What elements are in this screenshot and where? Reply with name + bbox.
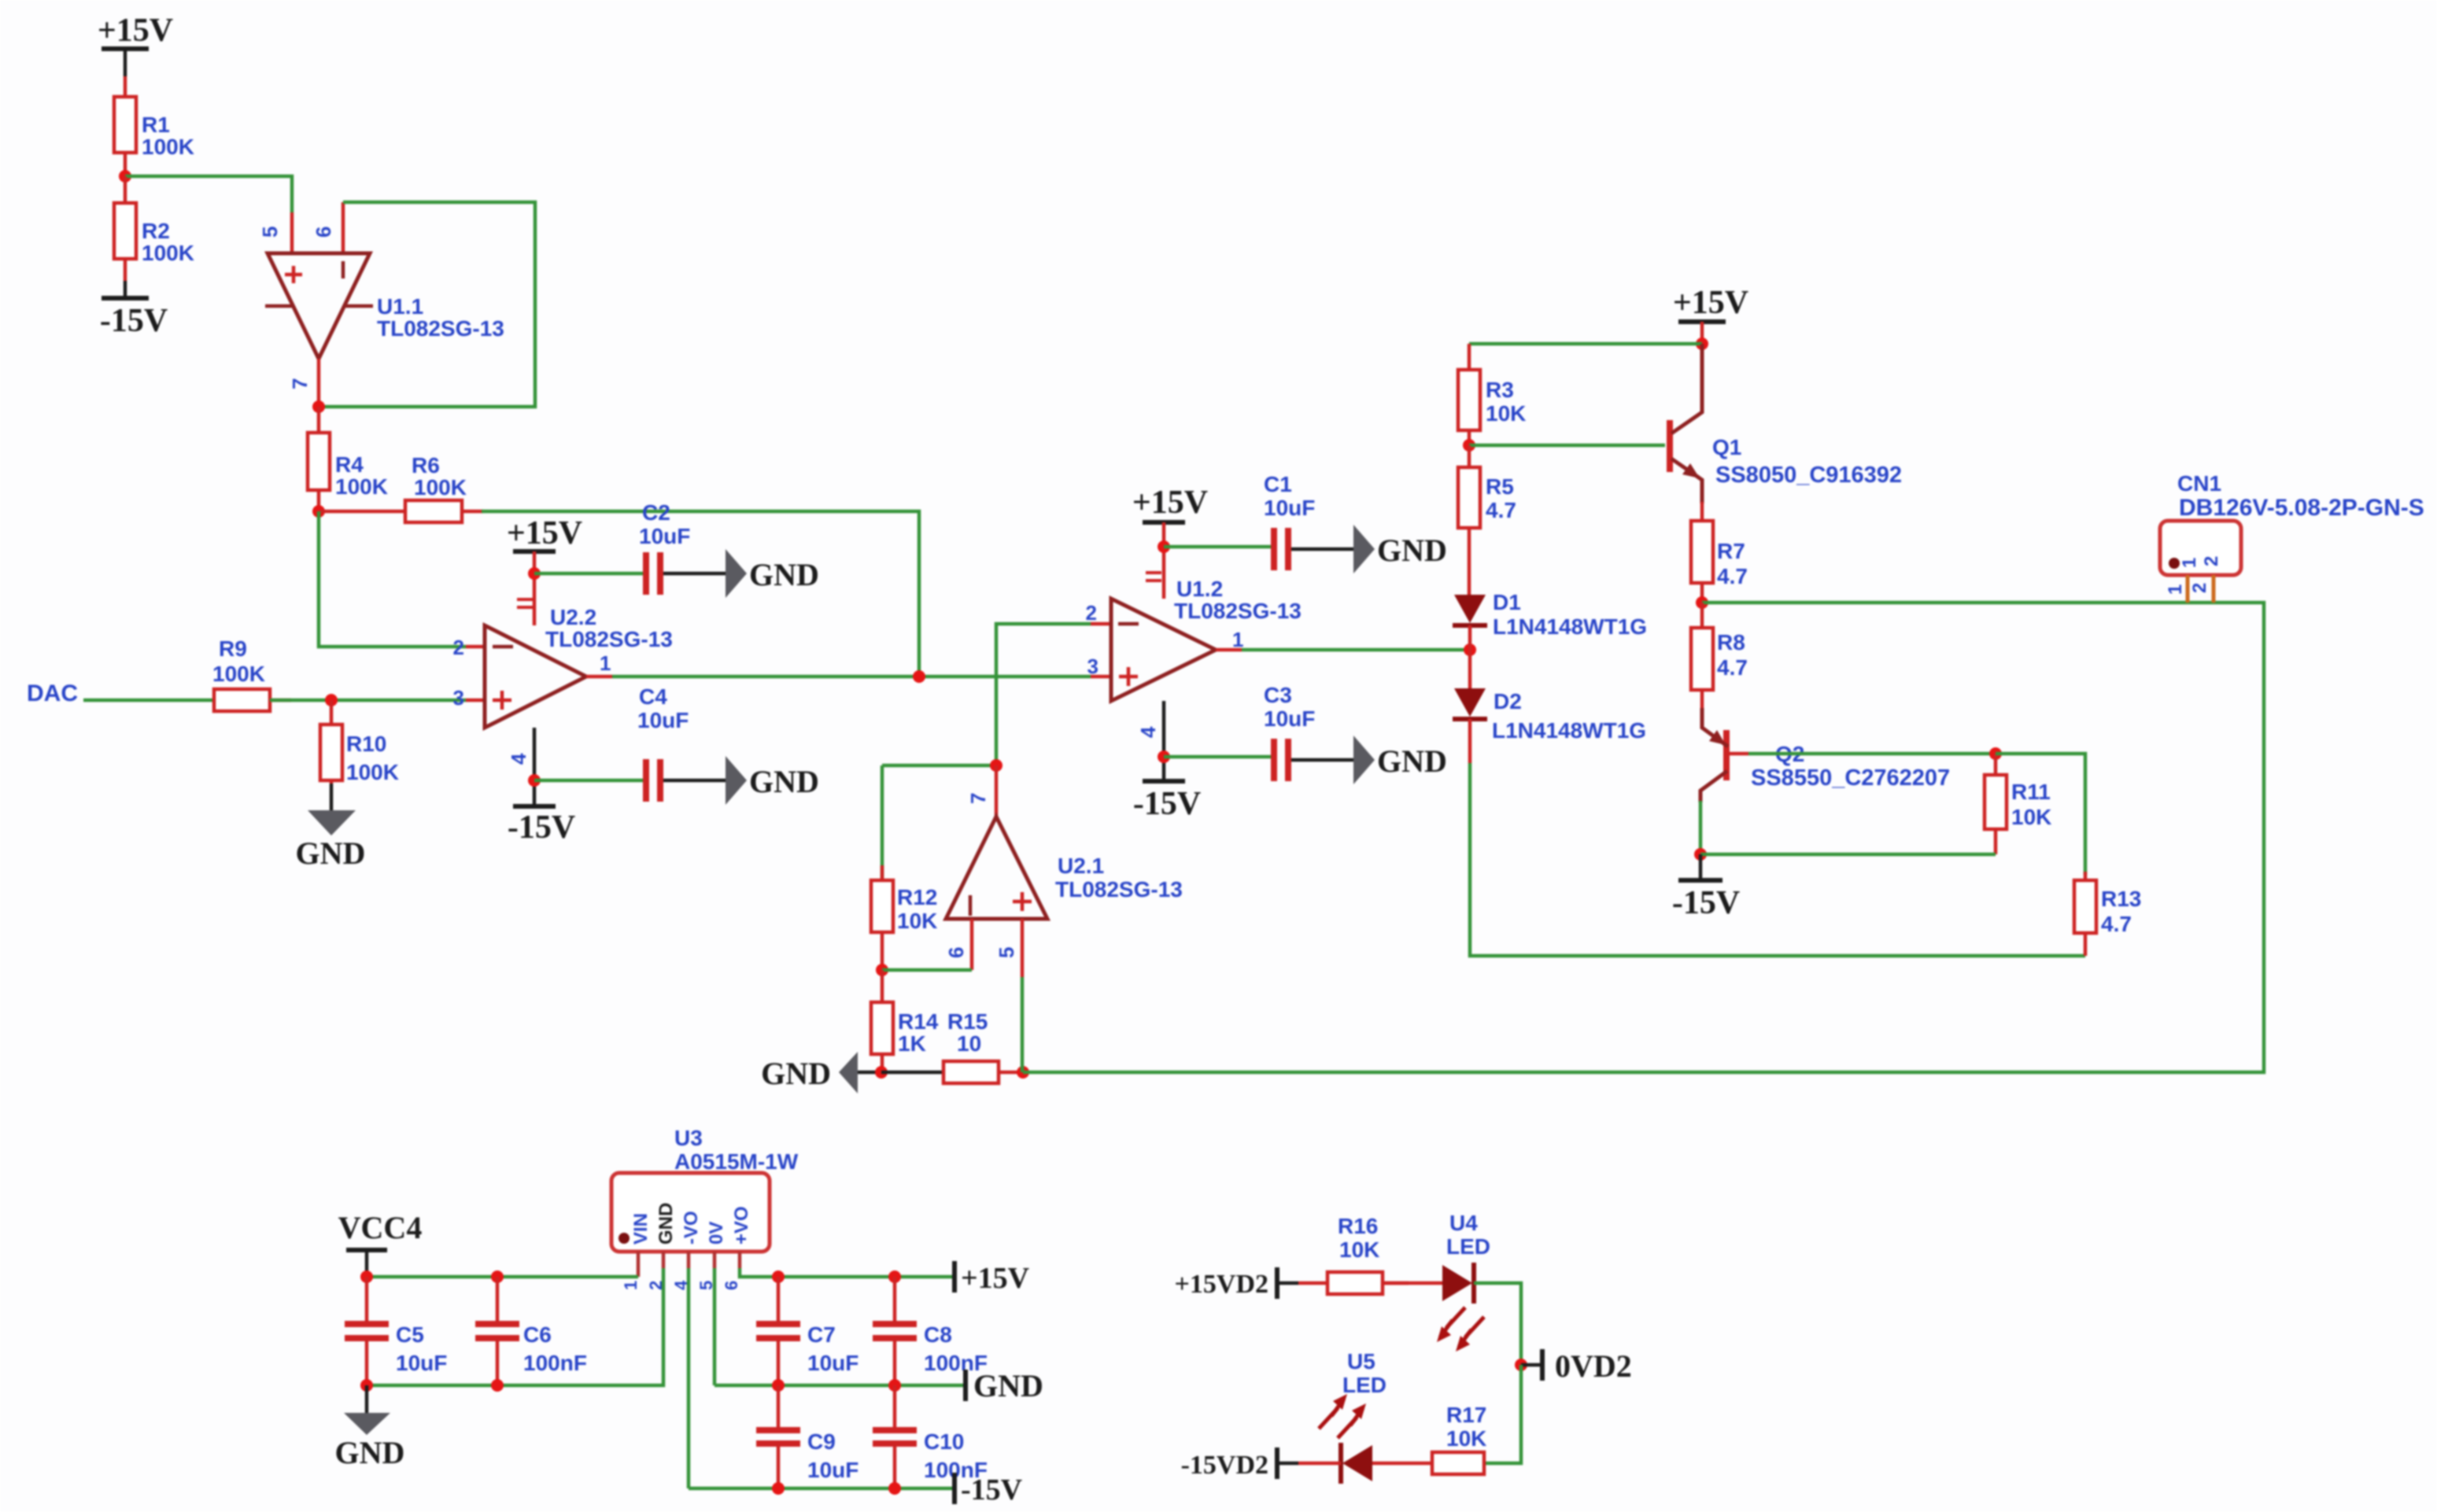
wire (Q2 base to R11)	[1748, 752, 1996, 756]
node (U1.2 V+ / C1)	[1158, 540, 1170, 553]
node (VCC4/C5)	[360, 1270, 373, 1283]
node (U1.1 output)	[312, 400, 325, 413]
wire (U2.1 pin5 down to R15 node)	[1021, 977, 1025, 1072]
svg-text:100K: 100K	[414, 475, 467, 500]
wire (R6 to U2.2 output node, feedback)	[482, 511, 919, 673]
svg-text:4.7: 4.7	[2101, 912, 2132, 936]
connector CN1 DB126V-5.08-2P-GN-S	[2160, 471, 2424, 603]
svg-text:GND: GND	[655, 1203, 677, 1245]
svg-text:2: 2	[2189, 583, 2210, 593]
power -15V (below Q2)	[1672, 854, 1740, 921]
resistor R14 1K	[871, 970, 939, 1072]
wire (U2.2 output to U1.2 pin3)	[612, 675, 1091, 679]
wire (U3 pin2 GND down to bottom-left rail)	[367, 1268, 663, 1385]
svg-text:TL082SG-13: TL082SG-13	[1174, 599, 1302, 623]
svg-text:1: 1	[2165, 585, 2186, 595]
wire (collector node to R11 bottom)	[1700, 853, 1996, 857]
node (C8 bottom)	[888, 1379, 901, 1392]
capacitor C1 10uF	[1264, 472, 1353, 570]
svg-text:0VD2: 0VD2	[1555, 1348, 1632, 1384]
wire (junction to U1.1 pin5)	[125, 176, 292, 212]
wire (VCC4 rail to U3 pin1)	[367, 1275, 638, 1279]
capacitor C10 100nF	[873, 1385, 988, 1488]
node (C7 top)	[772, 1270, 785, 1283]
svg-text:4.7: 4.7	[1486, 498, 1516, 522]
svg-text:R4: R4	[335, 452, 364, 477]
ground (C2)	[726, 549, 819, 598]
op-amp U2.1 TL082SG-13	[944, 765, 1183, 977]
ground (C1)	[1353, 525, 1447, 573]
svg-text:+15V: +15V	[1673, 285, 1748, 321]
svg-text:U1.1: U1.1	[377, 294, 423, 319]
svg-text:+15V: +15V	[507, 515, 582, 551]
svg-text:GND: GND	[749, 557, 819, 592]
svg-text:4.7: 4.7	[1717, 655, 1748, 680]
svg-text:C5: C5	[396, 1322, 424, 1347]
svg-text:R10: R10	[346, 732, 386, 756]
svg-text:-15V: -15V	[508, 809, 575, 846]
wire (+15VD2 to R16)	[1298, 1282, 1327, 1285]
svg-text:DB126V-5.08-2P-GN-S: DB126V-5.08-2P-GN-S	[2179, 495, 2424, 521]
svg-text:C3: C3	[1264, 683, 1292, 707]
wire (U3 pin4 -VO down to -15V rail)	[687, 1268, 691, 1488]
node (output/feedback junction)	[913, 670, 925, 683]
svg-text:4.7: 4.7	[1717, 564, 1748, 588]
svg-text:U3: U3	[674, 1126, 703, 1150]
svg-text:-15V: -15V	[961, 1473, 1023, 1506]
resistor R9 100K	[212, 636, 291, 711]
svg-text:5: 5	[995, 947, 1018, 958]
wire (R7 node to CN1 and down to R15 net)	[1023, 603, 2264, 1072]
svg-text:+15V: +15V	[98, 13, 173, 49]
resistor R15 10	[881, 1009, 1023, 1083]
capacitor C7 10uF	[756, 1277, 858, 1385]
svg-text:R11: R11	[2011, 780, 2051, 804]
svg-text:C10: C10	[924, 1429, 964, 1454]
wire (to C2)	[534, 572, 644, 576]
power -15V (below U1.2)	[1133, 781, 1201, 822]
node (C7 bottom)	[772, 1379, 785, 1392]
svg-text:GND: GND	[973, 1368, 1043, 1403]
node (U2.2 V- / C4)	[528, 774, 541, 787]
svg-text:2: 2	[453, 636, 464, 659]
svg-text:100K: 100K	[142, 241, 194, 265]
power -15V (below U2.2)	[508, 806, 575, 846]
svg-text:C7: C7	[807, 1322, 836, 1347]
power +15V (above U2.2)	[507, 515, 582, 573]
resistor R4 100K	[308, 407, 388, 511]
op-amp U1.1 TL082SG-13	[258, 202, 504, 407]
wire (U3 pin5 0V down to GND rail)	[713, 1268, 717, 1385]
ground (C3)	[1353, 736, 1447, 784]
resistor R10 100K	[320, 700, 399, 810]
svg-text:1: 1	[1232, 628, 1243, 651]
capacitor C8 100nF	[873, 1277, 988, 1385]
wire (GND rail)	[714, 1384, 966, 1388]
node (C6 top)	[491, 1270, 504, 1283]
svg-text:R5: R5	[1486, 474, 1514, 499]
capacitor C6 100nF	[475, 1277, 587, 1385]
terminal -15V	[954, 1473, 1023, 1506]
capacitor C3 10uF	[1264, 683, 1353, 781]
svg-text:GND: GND	[335, 1435, 405, 1470]
op-amp U2.2 TL082SG-13	[453, 575, 673, 805]
node (R12/R14 junction)	[876, 964, 888, 976]
node (D1/D2 junction)	[1464, 644, 1476, 656]
svg-text:GND: GND	[749, 764, 819, 799]
svg-text:D1: D1	[1493, 590, 1521, 614]
svg-text:3: 3	[1087, 655, 1098, 678]
svg-text:LED: LED	[1342, 1373, 1387, 1397]
svg-text:+15V: +15V	[961, 1262, 1030, 1295]
terminal 0VD2	[1521, 1348, 1632, 1384]
svg-text:U2.1: U2.1	[1058, 854, 1104, 878]
resistor R12 10K	[871, 765, 937, 970]
svg-text:100K: 100K	[346, 760, 399, 784]
svg-text:A0515M-1W: A0515M-1W	[674, 1149, 799, 1174]
led U5 LED	[1319, 1349, 1387, 1484]
wire (to C4)	[534, 779, 644, 783]
svg-text:C8: C8	[924, 1322, 952, 1347]
wire (junction to U2.1 pin6)	[882, 968, 972, 972]
svg-text:10K: 10K	[1486, 401, 1526, 426]
svg-text:U5: U5	[1347, 1349, 1375, 1374]
svg-text:R3: R3	[1486, 378, 1514, 402]
wire (D2 down to R13 bottom rail)	[1470, 763, 2085, 956]
diode D1 L1N4148WT1G	[1453, 590, 1647, 650]
resistor R7 4.7	[1691, 502, 1748, 603]
node (C5 bottom)	[360, 1379, 373, 1392]
wire (R11 node to R13)	[1996, 754, 2085, 875]
wire (R16 to U4)	[1383, 1282, 1442, 1285]
svg-text:100nF: 100nF	[523, 1351, 587, 1375]
op-amp U1.2 TL082SG-13	[1086, 548, 1302, 780]
wire (U2.1 output up to U1.2 pin2)	[996, 624, 1091, 765]
node (Q2 base / R11 junction)	[1989, 747, 2002, 760]
ground (below R10)	[296, 810, 366, 871]
wire (-15V rail)	[689, 1487, 954, 1491]
svg-text:-15V: -15V	[1672, 885, 1740, 921]
node (R1/R2 junction)	[119, 170, 131, 183]
resistor R8 4.7	[1691, 603, 1748, 708]
node (+15V rail junction)	[1696, 337, 1708, 350]
wire (U3 pin6 +VO to +15V rail)	[740, 1268, 954, 1277]
svg-text:2: 2	[1086, 601, 1097, 625]
svg-text:5: 5	[258, 227, 282, 238]
svg-text:TL082SG-13: TL082SG-13	[377, 316, 504, 341]
resistor R5 4.7	[1458, 445, 1516, 595]
svg-text:6: 6	[312, 227, 335, 238]
terminal -15VD2	[1181, 1447, 1277, 1480]
svg-text:10: 10	[957, 1031, 981, 1056]
svg-text:7: 7	[288, 378, 312, 389]
svg-text:+15V: +15V	[1132, 485, 1208, 521]
svg-text:TL082SG-13: TL082SG-13	[1055, 877, 1183, 902]
svg-text:+VO: +VO	[731, 1206, 752, 1245]
svg-text:D2: D2	[1494, 689, 1522, 714]
svg-text:C4: C4	[639, 684, 667, 709]
svg-text:10K: 10K	[2011, 805, 2051, 829]
svg-text:TL082SG-13: TL082SG-13	[545, 627, 673, 651]
resistor R1 100K	[114, 76, 194, 176]
node (R7/R8/CN1 junction)	[1696, 596, 1708, 609]
node (GND/R14/R15 junction)	[875, 1066, 888, 1079]
node (C8 top)	[888, 1270, 901, 1283]
wire (to C1)	[1164, 545, 1272, 549]
node (Q2 collector junction)	[1694, 848, 1707, 861]
svg-text:C2: C2	[642, 500, 670, 525]
power +15V (above Q1)	[1673, 285, 1748, 344]
svg-text:-15VD2: -15VD2	[1181, 1451, 1268, 1480]
power +15V (top left)	[98, 13, 173, 76]
resistor R13 4.7	[2074, 872, 2141, 956]
svg-text:R13: R13	[2101, 887, 2141, 911]
wire (U5 to -15VD2)	[1298, 1462, 1341, 1466]
diode D2 L1N4148WT1G	[1453, 688, 1646, 763]
svg-text:100K: 100K	[335, 474, 388, 499]
ground (below C5)	[335, 1385, 405, 1470]
transistor Q1 SS8050	[1670, 344, 1902, 503]
svg-text:R17: R17	[1446, 1403, 1486, 1427]
svg-text:R6: R6	[412, 453, 440, 478]
svg-text:100K: 100K	[142, 135, 194, 159]
svg-text:R2: R2	[142, 219, 170, 243]
svg-text:10uF: 10uF	[807, 1351, 858, 1375]
svg-text:C6: C6	[523, 1322, 552, 1347]
resistor R6 100K	[405, 453, 483, 522]
svg-text:4: 4	[1136, 726, 1160, 738]
transistor Q2 SS8550	[1700, 708, 1950, 854]
svg-text:U1.2: U1.2	[1176, 577, 1223, 601]
svg-text:100K: 100K	[212, 662, 265, 686]
svg-text:GND: GND	[761, 1056, 831, 1091]
node (R3/R5 junction)	[1463, 439, 1475, 452]
wire (DAC to R9)	[83, 699, 214, 703]
wire (0VD2 node down to R17)	[1484, 1365, 1521, 1463]
node (R4/R6 junction)	[312, 505, 325, 518]
svg-text:1K: 1K	[898, 1031, 926, 1056]
node (U2.2 V+ / C2)	[528, 567, 541, 580]
svg-text:-15V: -15V	[100, 303, 168, 339]
svg-text:3: 3	[453, 686, 464, 710]
svg-text:7: 7	[966, 793, 990, 804]
svg-text:L1N4148WT1G: L1N4148WT1G	[1493, 614, 1647, 639]
svg-text:R1: R1	[142, 112, 170, 137]
ground (C4)	[726, 756, 819, 805]
wire (D1 to D2)	[1468, 650, 1472, 688]
resistor R17 10K	[1372, 1403, 1486, 1474]
svg-text:DAC: DAC	[27, 680, 78, 706]
wire (U1.1 feedback pin7 to pin6)	[319, 202, 535, 407]
power -15V (top left)	[100, 298, 168, 339]
node (C9 bottom)	[772, 1482, 785, 1495]
svg-text:VCC4: VCC4	[338, 1210, 423, 1245]
svg-text:R16: R16	[1338, 1214, 1378, 1238]
svg-text:-VO: -VO	[681, 1211, 702, 1245]
svg-text:-15V: -15V	[1133, 786, 1201, 822]
svg-text:Q1: Q1	[1712, 435, 1741, 459]
svg-text:10uF: 10uF	[1264, 706, 1315, 731]
wire (R3 node to Q1 base)	[1469, 444, 1665, 448]
svg-text:10uF: 10uF	[807, 1458, 858, 1482]
svg-text:GND: GND	[1377, 743, 1447, 779]
terminal +15VD2	[1175, 1267, 1298, 1299]
node (R15/pin5 junction)	[1017, 1066, 1029, 1079]
svg-text:SS8550_C2762207: SS8550_C2762207	[1751, 765, 1950, 791]
power VCC4	[338, 1210, 423, 1277]
svg-text:C1: C1	[1264, 472, 1292, 496]
svg-text:SS8050_C916392: SS8050_C916392	[1715, 463, 1902, 488]
resistor R2 100K	[114, 176, 194, 298]
svg-text:CN1: CN1	[2177, 471, 2221, 496]
capacitor C5 10uF	[345, 1277, 447, 1385]
node (0VD2 junction)	[1515, 1359, 1527, 1371]
svg-text:10K: 10K	[1446, 1426, 1486, 1451]
node (pin7 junction)	[990, 759, 1002, 772]
svg-text:L1N4148WT1G: L1N4148WT1G	[1492, 718, 1646, 743]
wire (to C3)	[1164, 755, 1272, 759]
resistor R3 10K	[1458, 344, 1526, 445]
wire (R12 top to U2.1 pin7 corner)	[882, 764, 996, 768]
svg-text:LED: LED	[1446, 1234, 1490, 1259]
svg-text:10uF: 10uF	[637, 708, 689, 732]
node (R9/R10 junction)	[325, 694, 338, 706]
power +15V (above U1.2)	[1132, 485, 1208, 547]
svg-text:GND: GND	[296, 835, 366, 871]
svg-text:0V: 0V	[706, 1222, 727, 1245]
wire (U1.2 output)	[1242, 648, 1470, 652]
terminal +15V	[954, 1261, 1030, 1295]
regulator U3 A0515M-1W	[611, 1126, 799, 1290]
wire (junction to R6)	[319, 510, 405, 514]
svg-text:U4: U4	[1449, 1211, 1478, 1235]
svg-text:R8: R8	[1717, 630, 1745, 655]
svg-text:10uF: 10uF	[396, 1351, 447, 1375]
svg-text:+15VD2: +15VD2	[1175, 1270, 1268, 1299]
ground (R14/R15 node)	[761, 1052, 881, 1093]
capacitor C2 10uF	[639, 500, 726, 595]
wire (R4 node down to U2.2 pin2)	[319, 511, 466, 647]
capacitor C9 10uF	[756, 1385, 858, 1488]
svg-text:R9: R9	[219, 636, 247, 661]
svg-text:6: 6	[944, 947, 968, 958]
terminal GND	[966, 1368, 1043, 1403]
svg-text:10K: 10K	[897, 909, 937, 933]
node (U1.2 V- / C3)	[1158, 750, 1170, 763]
svg-text:2: 2	[2201, 556, 2222, 566]
svg-text:1: 1	[621, 1281, 641, 1290]
svg-text:R15: R15	[947, 1009, 988, 1034]
svg-text:4: 4	[507, 753, 530, 765]
resistor R11 10K	[1985, 754, 2051, 854]
wire (R9 to U2.2 pin3)	[270, 699, 466, 703]
svg-text:R12: R12	[897, 885, 937, 909]
svg-text:1: 1	[600, 651, 611, 675]
node (C10 bottom)	[888, 1482, 901, 1495]
svg-text:10uF: 10uF	[639, 524, 690, 548]
wire (U4 to 0VD2 node)	[1474, 1283, 1521, 1365]
svg-text:1: 1	[2179, 558, 2200, 568]
svg-text:6: 6	[722, 1281, 741, 1290]
svg-text:U2.2: U2.2	[550, 605, 596, 629]
capacitor C4 10uF	[637, 684, 726, 802]
svg-text:R7: R7	[1717, 539, 1745, 563]
node (C6 bottom)	[491, 1379, 504, 1392]
led U4 LED	[1437, 1211, 1490, 1352]
svg-text:10uF: 10uF	[1264, 496, 1315, 520]
wire (U1.2 pin3 red stub)	[1091, 675, 1111, 679]
svg-text:10K: 10K	[1339, 1237, 1379, 1262]
svg-text:C9: C9	[807, 1429, 836, 1454]
wire (+15V to R3)	[1469, 342, 1702, 346]
svg-text:R14: R14	[898, 1009, 939, 1034]
svg-text:GND: GND	[1377, 533, 1447, 568]
resistor R16 10K	[1327, 1214, 1409, 1294]
svg-text:VIN: VIN	[630, 1213, 652, 1245]
